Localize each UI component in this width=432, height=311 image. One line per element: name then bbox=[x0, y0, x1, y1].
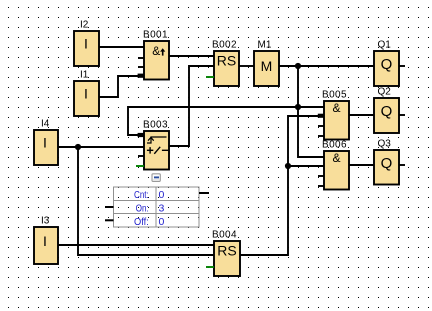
parameter stub B004 bbox=[206, 266, 214, 268]
negated input marker B001 pin 4 bbox=[138, 74, 145, 78]
output block Q3 bbox=[374, 150, 399, 185]
svg-text:Q: Q bbox=[381, 103, 393, 120]
AND gate B005 bbox=[318, 101, 349, 140]
output block Q2 bbox=[374, 98, 399, 133]
wire I3 to B004 S input bbox=[58, 244, 214, 246]
svg-text:I: I bbox=[43, 135, 47, 151]
input block I1 bbox=[74, 81, 99, 116]
wire I1 to B001 input 4 bbox=[99, 76, 138, 97]
svg-text:I: I bbox=[84, 36, 88, 52]
wire B006 output to Q3 input bbox=[349, 164, 374, 166]
AND gate B006 bbox=[318, 151, 349, 190]
svg-text:B004: B004 bbox=[212, 230, 237, 241]
svg-text:I: I bbox=[43, 233, 47, 249]
wire Q3 output stub bbox=[399, 164, 405, 166]
svg-text:RS: RS bbox=[217, 53, 236, 69]
svg-text:M: M bbox=[261, 58, 273, 74]
svg-text:3: 3 bbox=[159, 203, 165, 215]
wire I2 to B001 input 1 bbox=[99, 46, 144, 48]
svg-text:Q1: Q1 bbox=[378, 40, 392, 51]
svg-text:I1: I1 bbox=[80, 70, 89, 81]
wire M1 output to Q1 input bbox=[279, 65, 374, 67]
svg-text:0: 0 bbox=[159, 189, 165, 201]
junction node B005 branch bbox=[295, 104, 301, 110]
svg-text:Off:: Off: bbox=[134, 216, 149, 228]
svg-text:On:: On: bbox=[136, 203, 149, 215]
wire M1 net feedback to B003 R input bbox=[128, 107, 298, 135]
wire B005 output to Q2 input bbox=[349, 114, 374, 116]
svg-text:B001: B001 bbox=[143, 30, 168, 41]
table pin stub Off row bbox=[105, 219, 114, 221]
svg-text:B002: B002 bbox=[212, 40, 237, 51]
wire B004 output up to B005 input 2 bbox=[240, 116, 318, 255]
parameter stub B002 bbox=[206, 76, 214, 78]
negated input marker B005 pin 2 bbox=[318, 114, 324, 118]
junction node B004 branch bbox=[285, 163, 291, 169]
wire B002 output to M1 input bbox=[239, 65, 254, 67]
junction node I4 branch bbox=[75, 144, 81, 150]
wire M1 net down to B006 input 1 bbox=[298, 107, 324, 157]
table pin stub On row bbox=[105, 206, 114, 208]
svg-text:B005: B005 bbox=[322, 90, 347, 101]
wire B001 output to B002 S input bbox=[169, 55, 214, 57]
svg-text:Q: Q bbox=[381, 56, 393, 73]
svg-text:I3: I3 bbox=[41, 216, 50, 227]
svg-text:&: & bbox=[332, 101, 340, 115]
svg-text:Q: Q bbox=[381, 155, 393, 172]
up/down counter B003 bbox=[138, 131, 169, 170]
svg-text:RS: RS bbox=[217, 243, 236, 259]
output block Q1 bbox=[374, 51, 399, 86]
edge-triggered AND gate B001 bbox=[138, 41, 169, 80]
svg-text:M1: M1 bbox=[258, 40, 272, 51]
negated input marker B003 R pin bbox=[138, 133, 145, 137]
svg-text:Cnt:: Cnt: bbox=[134, 189, 149, 201]
wire M1 net down to B005 input 1 bbox=[298, 66, 324, 107]
collapse button minus bbox=[152, 174, 160, 182]
input block I2 bbox=[74, 31, 99, 66]
flag / marker block M1 bbox=[254, 51, 279, 86]
svg-text:&: & bbox=[152, 44, 160, 58]
svg-text:Q3: Q3 bbox=[378, 139, 392, 150]
wire I4 net down to B004 R input bbox=[78, 147, 214, 255]
input block I3 bbox=[34, 227, 58, 264]
svg-text:Q2: Q2 bbox=[378, 87, 392, 98]
svg-text:I: I bbox=[84, 86, 88, 102]
junction node M1 out / Q1 bbox=[295, 63, 301, 69]
wire Q1 output stub bbox=[399, 65, 405, 67]
svg-text:0: 0 bbox=[159, 216, 165, 228]
wire Q2 output stub bbox=[399, 114, 405, 116]
svg-text:&: & bbox=[332, 151, 340, 165]
RS latch B002 bbox=[214, 51, 239, 86]
svg-text:B003: B003 bbox=[143, 120, 168, 131]
svg-text:I4: I4 bbox=[41, 119, 50, 130]
svg-text:B006: B006 bbox=[322, 140, 347, 151]
table pin stub Cnt row bbox=[199, 192, 209, 194]
wire B004 net branch to B006 input 2 bbox=[288, 165, 324, 167]
input block I4 bbox=[34, 130, 58, 165]
svg-text:I2: I2 bbox=[80, 20, 89, 31]
wire B003 output to B002 R input bbox=[169, 66, 214, 146]
RS latch B004 bbox=[214, 241, 240, 276]
parameter table of counter B003 bbox=[114, 187, 200, 227]
parameter stub B003 bbox=[136, 165, 144, 167]
wire I4 to B003 Cnt input bbox=[58, 146, 144, 148]
